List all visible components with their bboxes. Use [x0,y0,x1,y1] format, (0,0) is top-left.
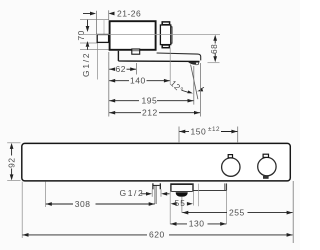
svg-text:92: 92 [7,157,17,167]
G1/2 stub below bar (front view) [153,183,160,189]
G1/2 pipe lines going down [154,186,156,204]
svg-text:620: 620 [149,230,165,240]
dimension 21-26 top [83,8,141,18]
svg-text:255: 255 [229,207,245,217]
svg-text:130: 130 [189,219,205,229]
dimension 255 [182,207,292,217]
wire: stub right wall extension down to 55 [192,192,194,206]
wire: left extension for 620 [21,182,23,239]
dimension 620 [23,230,293,240]
wire: left extension for 308 [45,182,47,208]
wire: spray direction slant line (12 deg) [191,65,198,100]
spout (side view): left wall, bottom, top right of body, tip [117,51,119,61]
wire: vertical extension under aerator for 195 [193,66,195,105]
wire: vertical extension line of escutcheon front face [95,11,97,34]
svg-text:5: 5 [180,199,185,208]
wire: vertical extension line below escutcheon (G1/2 union) [97,43,99,80]
svg-text:68: 68 [209,44,219,54]
spout stub below bar (front view) [171,183,193,191]
dimension 62 [109,63,136,75]
wire: long horizontal axis line through body and handle [80,34,220,36]
svg-text:140: 140 [130,76,146,86]
svg-text:21-26: 21-26 [117,8,141,18]
svg-text:62: 62 [116,64,126,74]
wire: thin line below bar at spout right [197,184,199,207]
mixer bar (front view) [22,143,291,181]
wire: vertical extension of body left edge above body [108,10,110,20]
svg-text:195: 195 [142,96,158,106]
ledge under bar right of spout stub [194,183,227,190]
handle top cap (side view) [162,22,169,25]
wire: vertical extension under spout tip for 212 [199,63,201,117]
wire: faint inner wall line [103,20,105,34]
knob 2 top nub [263,154,268,157]
svg-text:308: 308 [75,199,91,209]
label G1/2 with arrows (front view) [120,188,170,198]
svg-text:212: 212 [142,108,158,118]
svg-text:150: 150 [191,126,207,136]
dimension 195 [109,96,193,106]
dimension 212 [109,108,200,118]
dimension 92 (vertical, left) [7,143,21,181]
wire: stub wall extensions for G1/2 dim [151,189,153,197]
knob 1 top nub [228,155,232,158]
svg-text:5: 5 [175,199,180,208]
dimension 308 [46,199,155,209]
wire: outlet extension line for 130 [226,190,228,224]
aerator dome (front view, dark) [176,192,188,197]
dimension 70 (vertical, left) [76,20,89,50]
aerator under spout tip (side view, dark) [188,62,197,65]
handle bottom cap (side view) [162,45,169,48]
knob 2 bottom nub (dark) [263,176,269,179]
svg-text:70: 70 [76,30,86,40]
knob 2 (front view circle) [258,157,276,175]
knob 1 (front view circle) [222,158,240,176]
wire: extension line from body top extending left [80,19,109,21]
handle flange (side view) [171,27,172,43]
dimension 130 [171,219,227,229]
svg-text:G1/2: G1/2 [120,188,145,198]
dimension 55 [171,199,193,208]
wire: extension line from escutcheon bottom extending left [80,42,98,44]
diverter button on spout (side view) [132,49,140,54]
svg-text:G1/2: G1/2 [81,52,91,77]
escutcheon / wall connection step [97,35,108,43]
wire: extension line from body bottom extending left [80,49,109,51]
dimension 150 +/-12 [179,126,238,142]
wire: shared left extension line (wall) for dims below [108,52,110,117]
wire: stub left wall extension down to 130 [169,192,171,225]
angle dimension 12 degrees [168,78,204,95]
dimension 140 [109,48,170,86]
wire: center line below aerator [181,196,183,213]
svg-text:±12: ±12 [208,126,220,133]
handle body (side view) [160,25,170,45]
mixer body (side view) [110,21,156,50]
wire: right extension for 255/620 [292,181,294,243]
dimension 68 (vertical, right) [208,35,220,63]
